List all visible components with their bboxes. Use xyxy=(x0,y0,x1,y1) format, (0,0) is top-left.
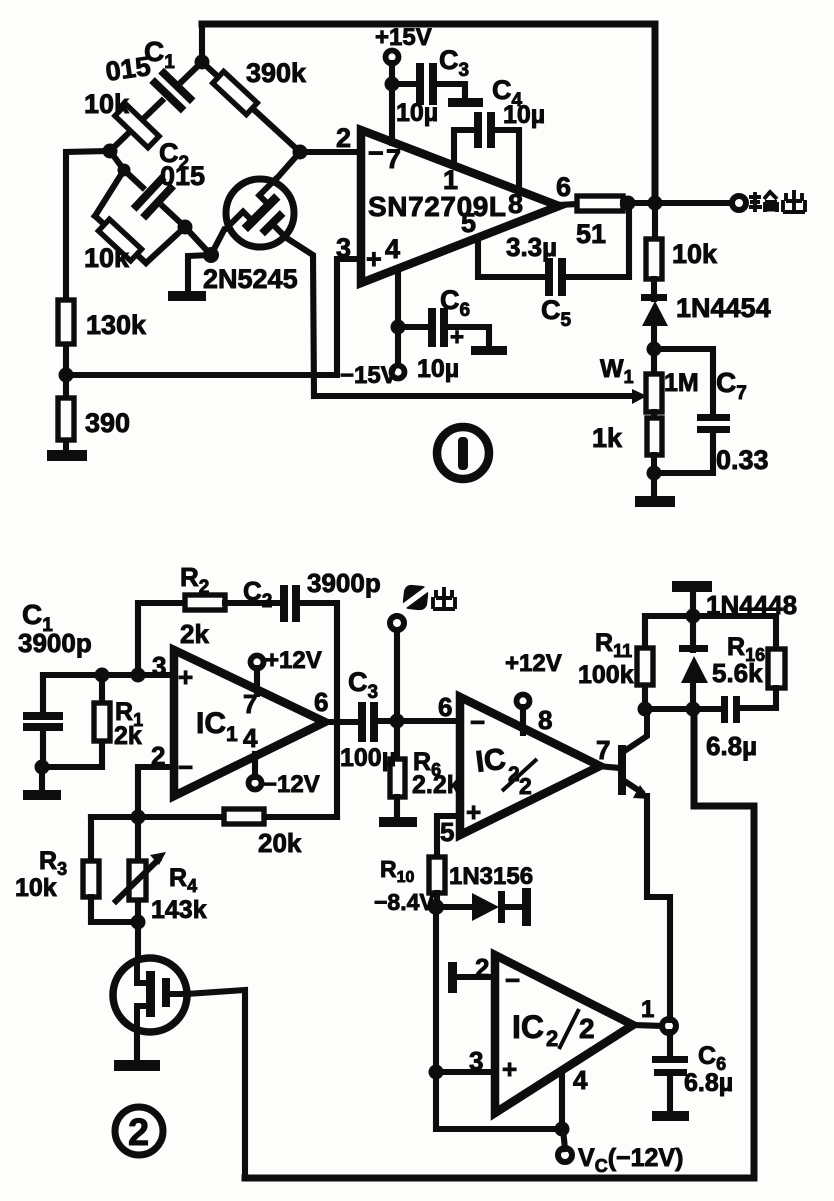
svg-text:6.8µ: 6.8µ xyxy=(684,1069,733,1097)
wire Q1 drain to bridge right node xyxy=(278,152,300,177)
terminal +12V (IC1) xyxy=(251,656,264,669)
svg-text:2k: 2k xyxy=(114,722,142,750)
wire pin3 xyxy=(436,1069,495,1075)
capacitor C5 3.3u loop xyxy=(478,238,546,277)
wire pin 2 input xyxy=(300,149,360,155)
svg-text:3: 3 xyxy=(152,651,166,681)
transistor Q1 2N5245 (JFET in circle) xyxy=(226,179,294,247)
svg-text:−15V: −15V xyxy=(340,362,397,389)
wire output to terminal xyxy=(623,200,733,206)
svg-text:+: + xyxy=(178,662,193,692)
ground (C3) xyxy=(448,98,483,107)
resistor R4 143k xyxy=(135,817,141,963)
svg-text:1M: 1M xyxy=(664,369,699,397)
ground (bridge) xyxy=(168,291,206,301)
node below 1k xyxy=(647,466,662,481)
svg-text:6: 6 xyxy=(556,172,571,202)
capacitor C4 10u bracket xyxy=(454,130,475,164)
transistor Q3 xyxy=(598,766,620,768)
node pin4 xyxy=(555,1122,570,1137)
resistor R10 xyxy=(429,857,445,893)
svg-text:−: − xyxy=(505,965,520,995)
resistor R11 100k xyxy=(642,616,648,709)
svg-text:+: + xyxy=(450,324,464,351)
svg-text:+: + xyxy=(466,797,481,827)
wire left column xyxy=(66,151,110,452)
svg-text:2k: 2k xyxy=(180,619,209,649)
wire wiper line to W1 xyxy=(314,393,634,399)
resistor 20k xyxy=(224,809,264,824)
wire emitter down xyxy=(647,796,670,1020)
terminal VC xyxy=(558,1148,572,1162)
wire feedback to pin 3 xyxy=(66,259,360,375)
svg-text:3900p: 3900p xyxy=(307,568,381,598)
wire rhombus to source node xyxy=(185,227,211,255)
svg-text:7: 7 xyxy=(386,144,401,174)
wire bridge left diagonal (C1 + 10k branch) xyxy=(110,62,202,151)
svg-text:1N4448: 1N4448 xyxy=(706,590,797,620)
wire down from output node xyxy=(652,203,658,240)
node above W1 xyxy=(647,342,662,357)
svg-text:7: 7 xyxy=(243,689,257,719)
resistor 51 xyxy=(577,196,623,211)
capacitor C3 100u xyxy=(358,702,366,742)
terminal output circuit1 xyxy=(732,196,746,210)
symbol circled 2 xyxy=(115,1107,163,1155)
ground (R6) xyxy=(379,817,417,827)
svg-text:2: 2 xyxy=(128,1112,149,1154)
svg-text:015: 015 xyxy=(104,51,153,87)
svg-text:1: 1 xyxy=(641,996,654,1023)
node R11 bottom xyxy=(638,702,653,717)
wire ground stub xyxy=(188,255,211,291)
resistor 1k xyxy=(651,412,657,419)
wire C2 rhombus connector xyxy=(110,151,124,170)
node rhombus top xyxy=(118,164,131,177)
svg-text:100µ: 100µ xyxy=(340,744,396,772)
node T xyxy=(686,609,701,624)
svg-text:4: 4 xyxy=(573,1065,588,1095)
wire collector row xyxy=(645,613,776,619)
wire rhombus bottom-right edge xyxy=(146,227,185,263)
svg-text:2: 2 xyxy=(151,741,165,771)
svg-text:100k: 100k xyxy=(578,661,634,689)
CIRCUIT 1 TEXT xyxy=(84,24,805,475)
svg-text:5: 5 xyxy=(461,208,476,238)
potentiometer W1 1M xyxy=(646,374,662,412)
label output (chinese) circuit 1 xyxy=(749,192,777,212)
svg-text:+: + xyxy=(502,1054,517,1084)
op-amp IC1 xyxy=(174,650,325,796)
terminal pin1 xyxy=(662,1019,676,1033)
CIRCUIT 2 TEXT xyxy=(15,562,797,1176)
svg-text:3900p: 3900p xyxy=(18,628,92,658)
node D3 bottom xyxy=(686,702,701,717)
wire node down to pin3 xyxy=(436,907,562,1129)
svg-text:5: 5 xyxy=(440,817,454,847)
svg-text:3: 3 xyxy=(469,1046,483,1076)
svg-text:10µ: 10µ xyxy=(503,101,545,129)
node pin3 xyxy=(429,1065,444,1080)
svg-text:10k: 10k xyxy=(84,89,130,119)
wire apex stub xyxy=(199,24,205,64)
symbol circled 1 xyxy=(437,427,489,479)
node C1 bottom xyxy=(35,760,50,775)
svg-text:10k: 10k xyxy=(15,874,57,902)
transistor Q2 FET (circle) xyxy=(113,958,187,1032)
svg-text:3.3µ: 3.3µ xyxy=(506,232,557,262)
resistor R16 5.6k xyxy=(773,616,779,650)
svg-text:10µ: 10µ xyxy=(396,99,438,127)
svg-text:1N4454: 1N4454 xyxy=(676,293,771,323)
svg-text:20k: 20k xyxy=(258,828,302,858)
wire rhombus top-left edge xyxy=(95,170,124,216)
wire pin5 xyxy=(437,816,460,858)
node R2 branch xyxy=(131,668,146,683)
wire IC2 lower output xyxy=(633,1025,663,1026)
svg-text:6: 6 xyxy=(438,692,452,722)
svg-text:5.6k: 5.6k xyxy=(712,658,763,688)
svg-text:−8.4V: −8.4V xyxy=(374,889,435,915)
svg-text:015: 015 xyxy=(160,161,205,191)
svg-text:2: 2 xyxy=(336,123,351,153)
wire op-amp output xyxy=(557,204,578,205)
diode D2 1N3156 xyxy=(436,904,473,910)
svg-text:4: 4 xyxy=(385,234,400,264)
node left bridge xyxy=(103,144,118,159)
wire IC1 output xyxy=(325,719,359,725)
svg-text:3: 3 xyxy=(336,233,351,263)
resistor R1 2k xyxy=(99,675,105,767)
resistor R6 2.2k xyxy=(394,721,400,760)
node feedback xyxy=(131,810,146,825)
svg-text:SN72709L: SN72709L xyxy=(368,191,506,222)
node R1 top xyxy=(95,668,110,683)
wire 130k column node xyxy=(59,368,74,383)
wire R1 bottom link xyxy=(42,764,102,770)
capacitor C6 10u xyxy=(398,324,429,330)
svg-text:51: 51 xyxy=(576,219,606,249)
svg-text:8: 8 xyxy=(508,189,523,219)
wire feedback line xyxy=(91,814,337,820)
svg-text:IC: IC xyxy=(512,1009,544,1045)
svg-text:1N3156: 1N3156 xyxy=(449,863,533,890)
wire +15V supply xyxy=(386,51,399,64)
svg-text:1k: 1k xyxy=(592,423,623,453)
resistor R2 2k xyxy=(185,595,225,610)
node C6 xyxy=(391,320,406,335)
svg-text:6.8µ: 6.8µ xyxy=(706,731,757,761)
ground (left column) xyxy=(47,450,87,461)
node after 51 xyxy=(621,196,636,211)
svg-text:−: − xyxy=(470,707,485,737)
wire Q1 gate down to wiper line xyxy=(288,239,314,396)
svg-text:+15V: +15V xyxy=(375,24,432,51)
resistor 10k (rhombus lower-left edge) xyxy=(95,216,146,263)
svg-text:6: 6 xyxy=(314,687,328,717)
node bridge apex xyxy=(195,55,210,70)
svg-text:2.2k: 2.2k xyxy=(412,771,461,799)
resistor 10k (output) xyxy=(646,239,662,279)
wire input line xyxy=(43,672,174,678)
wire top rail from bridge apex to output column xyxy=(202,24,655,203)
svg-text:+: + xyxy=(366,244,382,274)
svg-text:143k: 143k xyxy=(151,896,207,924)
resistor 390k xyxy=(213,71,258,114)
svg-text:IC: IC xyxy=(474,743,508,779)
op-amp IC2/2 upper xyxy=(460,697,600,835)
svg-text:+12V: +12V xyxy=(265,647,322,674)
capacitor C3 10u xyxy=(392,81,417,87)
wire Q1 source to junction xyxy=(211,230,224,255)
ground (FET) xyxy=(134,1031,140,1061)
wire pin2 IC1 xyxy=(138,767,174,817)
diode D1 1N4454 xyxy=(651,279,657,299)
ground (C1) xyxy=(39,767,45,791)
ground (C6) xyxy=(471,346,507,355)
node -8.4V xyxy=(428,899,444,915)
svg-text:390: 390 xyxy=(85,408,130,438)
terminal +12V (IC2) xyxy=(517,695,530,708)
T-bar supply xyxy=(690,593,696,616)
capacitor C7 0.33 bracket xyxy=(654,349,713,416)
node rhombus right xyxy=(178,220,193,235)
wire R2/C2 top loop xyxy=(138,603,186,675)
svg-text:10k: 10k xyxy=(672,239,718,269)
capacitor C2 (015) on rhombus top-right edge xyxy=(124,170,185,227)
op-amp U1 SN72709L xyxy=(361,130,559,283)
capacitor C1 3900p xyxy=(40,675,46,714)
node +15V xyxy=(385,77,400,92)
svg-text:2: 2 xyxy=(546,1026,558,1051)
label output (chinese) circuit 2 xyxy=(403,585,428,610)
resistor R3 10k loop xyxy=(88,817,94,862)
ground (output divider) xyxy=(635,496,675,507)
node R4 bottom xyxy=(131,915,146,930)
resistor 130k xyxy=(58,300,74,344)
node output column xyxy=(648,196,663,211)
capacitor C6 6.8u xyxy=(667,1032,673,1058)
capacitor C2 3900p xyxy=(280,585,288,622)
resistor 390 xyxy=(58,398,74,440)
svg-text:10µ: 10µ xyxy=(417,355,459,383)
resistor 10k (upper-left bridge arm) xyxy=(115,104,159,147)
node bridge right xyxy=(293,145,308,160)
wire bottom feedback rail xyxy=(245,712,754,1178)
capacitor 6.8u (series) xyxy=(645,706,722,712)
diode D3 1N4448 xyxy=(690,616,696,650)
svg-text:390k: 390k xyxy=(246,58,307,88)
wire R2 to C2 xyxy=(225,600,281,606)
wire pin4 xyxy=(559,1072,565,1129)
svg-text:2: 2 xyxy=(475,953,489,983)
wire -15V pin4 xyxy=(395,270,401,367)
svg-text:2: 2 xyxy=(579,1013,595,1044)
svg-text:VC(−12V): VC(−12V) xyxy=(578,1144,683,1176)
svg-text:−12V: −12V xyxy=(263,771,320,798)
svg-text:10k: 10k xyxy=(84,243,130,273)
svg-text:7: 7 xyxy=(596,735,610,765)
svg-text:8: 8 xyxy=(538,705,552,735)
wire FET gate out xyxy=(186,990,245,1178)
ground (C6) xyxy=(652,1111,689,1121)
op-amp IC2/2 lower xyxy=(495,955,633,1113)
terminal -12V (IC1) xyxy=(249,777,262,790)
svg-text:2N5245: 2N5245 xyxy=(203,264,298,294)
svg-text:+12V: +12V xyxy=(505,650,562,677)
node JFET source junction xyxy=(203,247,219,263)
capacitor C1 (015) xyxy=(149,68,196,114)
svg-text:2: 2 xyxy=(519,773,532,799)
svg-text:4: 4 xyxy=(243,723,258,753)
node after C3 xyxy=(390,714,405,729)
terminal output circuit 2 xyxy=(390,616,404,630)
svg-text:−: − xyxy=(368,138,384,168)
svg-text:−: − xyxy=(178,752,193,782)
terminal -15V xyxy=(392,366,405,379)
wire pin2 stub xyxy=(458,974,495,980)
wire bridge right diagonal (390k branch) xyxy=(202,62,300,152)
svg-text:130k: 130k xyxy=(86,310,147,340)
svg-text:0.33: 0.33 xyxy=(716,445,769,475)
